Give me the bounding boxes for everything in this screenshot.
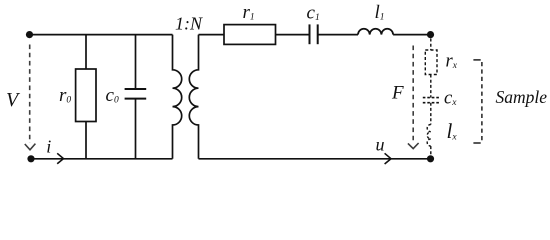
node: bottom-left junction dot	[27, 155, 34, 162]
current i arrow	[57, 153, 63, 164]
sample branch dashed stub (lx to node)	[430, 146, 432, 155]
resistor rx dashed box	[425, 50, 437, 75]
svg-text:Sample: Sample	[496, 87, 548, 107]
svg-text:rx: rx	[446, 52, 458, 72]
inductor lx dashed coil	[427, 125, 431, 147]
sample branch dashed stub (rx to cx)	[430, 75, 432, 98]
resistor r0	[85, 35, 87, 69]
voltage u arrow	[385, 153, 391, 164]
svg-text:V: V	[6, 89, 21, 111]
inductor l1	[358, 29, 393, 35]
wire: r1 to c1	[276, 34, 310, 36]
node: top-left junction dot	[26, 31, 33, 38]
svg-text:1:N: 1:N	[175, 14, 203, 34]
resistor r1	[224, 25, 276, 45]
wire: secondary top to r1	[199, 34, 225, 36]
svg-text:r1: r1	[243, 2, 255, 23]
svg-text:lx: lx	[447, 119, 458, 143]
svg-text:r0: r0	[59, 85, 71, 106]
svg-text:i: i	[46, 137, 51, 157]
svg-text:l1: l1	[375, 2, 385, 23]
wire: bottom-left horizontal	[31, 158, 173, 160]
svg-text:F: F	[391, 82, 404, 103]
capacitor c1	[309, 24, 311, 44]
force F dashed arrow	[408, 46, 419, 149]
node: top-right junction dot	[427, 31, 434, 38]
sample branch dashed stub (node to rx)	[430, 39, 432, 51]
svg-text:u: u	[376, 135, 385, 155]
svg-text:c1: c1	[307, 3, 320, 24]
wire: l1 to top-right node	[393, 34, 430, 36]
voltage source V dashed arrow	[25, 45, 36, 150]
wire: top-left horizontal	[30, 34, 173, 36]
node: bottom-right junction dot	[427, 155, 434, 162]
svg-text:cx: cx	[444, 88, 457, 108]
capacitor c0	[135, 35, 137, 89]
wire: c1 to l1	[318, 34, 358, 36]
transformer primary winding	[173, 35, 182, 159]
sample bracket	[473, 60, 482, 143]
sample branch dashed stub (cx to lx)	[430, 103, 432, 125]
svg-text:c0: c0	[106, 85, 119, 106]
wire: bottom-right horizontal	[199, 158, 431, 160]
transformer secondary winding	[189, 35, 198, 159]
capacitor cx dashed	[423, 97, 440, 99]
